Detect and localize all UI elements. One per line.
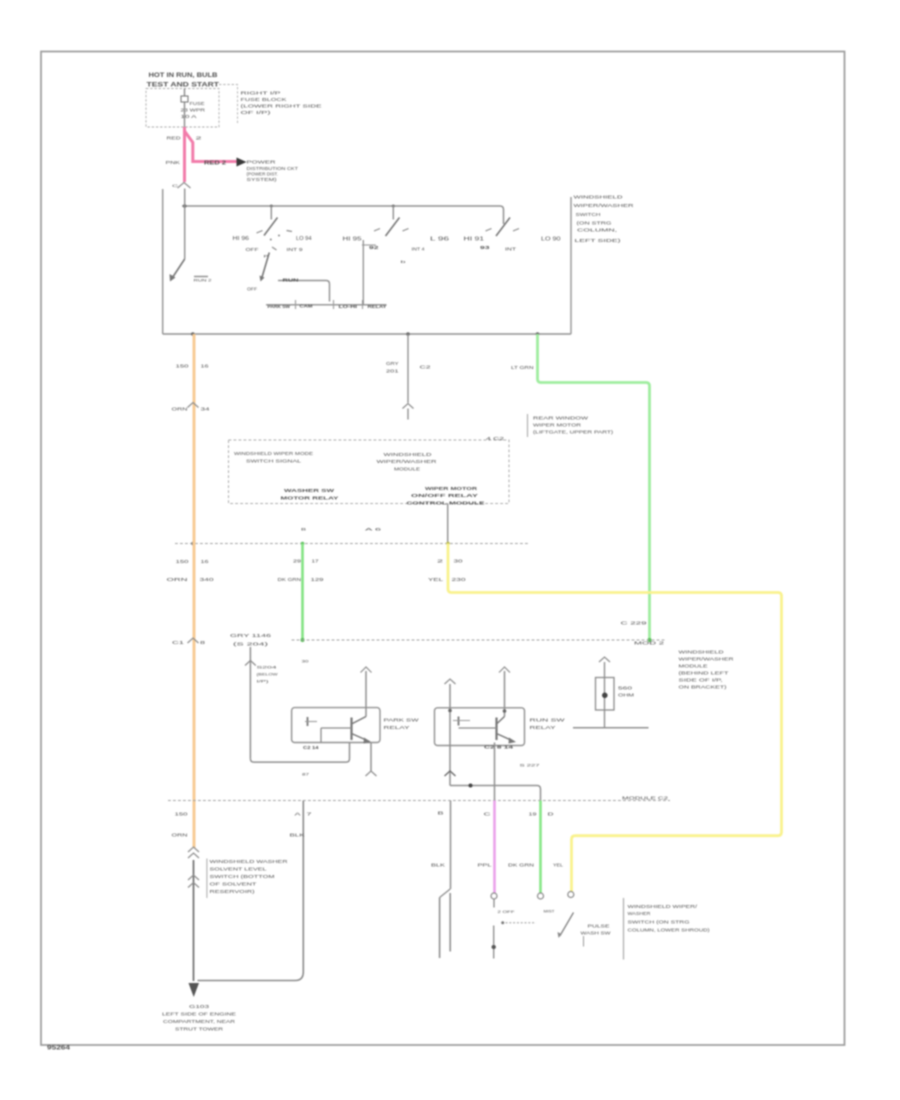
svg-text:GRY: GRY — [386, 361, 399, 366]
svg-text:WASHER: WASHER — [628, 911, 651, 916]
splice S227 label — [520, 763, 540, 768]
wire from S204 to relay K1 — [245, 647, 256, 759]
svg-text:4 C2: 4 C2 — [486, 436, 505, 441]
svg-text:RED: RED — [167, 136, 182, 141]
svg-text:DISTRIBUTION CKT: DISTRIBUTION CKT — [247, 166, 299, 171]
svg-text:OFF: OFF — [246, 247, 259, 252]
svg-text:WINDSHIELD WIPER MODE: WINDSHIELD WIPER MODE — [234, 451, 313, 456]
svg-text:(ON STRG: (ON STRG — [577, 221, 613, 226]
junction bus feed — [183, 204, 395, 208]
switch assembly box bottom edge — [163, 333, 571, 335]
resistor R1 — [596, 657, 635, 728]
svg-text:(S 204): (S 204) — [233, 642, 269, 647]
label LT GRN — [511, 365, 534, 370]
switch SW3 rotary — [464, 218, 561, 252]
park switch terminal row — [266, 300, 387, 309]
svg-text:LO 90: LO 90 — [541, 237, 561, 243]
net tag RED 2 on branch — [204, 161, 226, 167]
svg-text:DK GRN: DK GRN — [278, 577, 302, 582]
svg-text:2: 2 — [437, 559, 444, 564]
svg-text:7: 7 — [307, 812, 313, 817]
svg-text:230: 230 — [452, 577, 467, 582]
pin labels on dashed boundary — [301, 527, 383, 532]
hairpin connector below wire B — [440, 889, 451, 958]
svg-text:PULSE: PULSE — [588, 924, 610, 929]
switch assembly box right edge — [570, 197, 572, 334]
svg-text:RELAY: RELAY — [384, 725, 410, 730]
switch SW1b contact and wire to park row — [247, 278, 330, 302]
svg-text:RUN: RUN — [283, 278, 300, 283]
svg-text:(LIFTGATE, UPPER PART): (LIFTGATE, UPPER PART) — [533, 430, 614, 435]
svg-text:RED 2: RED 2 — [204, 161, 226, 167]
svg-text:560: 560 — [618, 686, 633, 691]
wire into fuse — [184, 89, 186, 96]
switch assembly label — [574, 195, 634, 244]
svg-text:S 227: S 227 — [520, 763, 540, 768]
svg-text:2: 2 — [196, 136, 203, 141]
svg-text:C1: C1 — [172, 640, 185, 645]
svg-text:C2 8 14: C2 8 14 — [484, 745, 514, 750]
svg-text:MIST: MIST — [544, 909, 556, 914]
svg-text:SWITCH (ON STRG: SWITCH (ON STRG — [628, 920, 691, 925]
relay K1 label — [384, 718, 420, 731]
svg-text:WINDSHIELD WASHER: WINDSHIELD WASHER — [210, 859, 288, 864]
svg-text:OF I/P): OF I/P) — [241, 110, 272, 116]
svg-text:BLK: BLK — [290, 833, 305, 838]
YEL label lower — [553, 863, 564, 868]
wiper switch blade lower — [558, 913, 574, 939]
svg-text:G103: G103 — [189, 1004, 210, 1009]
arrow to power distribution — [237, 158, 247, 167]
fuse block label text — [241, 91, 322, 117]
wire DK GRN short — [278, 544, 325, 643]
YEL wire labels — [428, 559, 467, 583]
wire ORN main vertical — [193, 334, 196, 848]
svg-text:b: b — [401, 260, 406, 264]
svg-text:TEST AND START: TEST AND START — [147, 82, 220, 89]
module boundary dashed line 2 — [292, 640, 666, 646]
svg-text:INT 9: INT 9 — [287, 247, 304, 252]
wire color label RED — [167, 136, 203, 141]
svg-text:S204: S204 — [257, 665, 279, 670]
ORN wire labels top — [172, 364, 211, 412]
svg-text:8: 8 — [200, 640, 206, 645]
svg-text:INT: INT — [505, 247, 516, 252]
switch assembly box left edge — [162, 189, 164, 334]
svg-text:LEFT SIDE OF ENGINE: LEFT SIDE OF ENGINE — [162, 1012, 236, 1017]
svg-text:RELAY: RELAY — [368, 304, 387, 309]
transistor Q1 in relay K1 — [305, 667, 377, 776]
svg-text:WIPER/WASHER: WIPER/WASHER — [679, 657, 734, 662]
module box text block 2 — [377, 452, 438, 472]
svg-text:MOTOR RELAY: MOTOR RELAY — [281, 496, 340, 502]
wire color label PNK — [166, 160, 182, 165]
relay K2 label — [530, 718, 567, 731]
svg-text:SWITCH: SWITCH — [576, 212, 601, 217]
svg-text:87: 87 — [302, 773, 309, 777]
ground bar under resistor — [573, 727, 649, 729]
svg-text:RUN 2: RUN 2 — [194, 279, 212, 283]
svg-text:16: 16 — [201, 559, 210, 564]
svg-text:93: 93 — [480, 245, 490, 250]
label MIST — [544, 909, 556, 914]
svg-text:30: 30 — [454, 559, 464, 564]
svg-text:FUSE: FUSE — [190, 101, 205, 106]
svg-text:SWITCH (BOTTOM: SWITCH (BOTTOM — [210, 874, 276, 879]
wire LT GRN long run — [538, 334, 650, 640]
wire PPL — [478, 801, 495, 894]
svg-text:10 A: 10 A — [181, 114, 197, 119]
wire feed A into relay K2 — [445, 679, 456, 786]
svg-text:30: 30 — [302, 660, 309, 664]
svg-text:WINDSHIELD: WINDSHIELD — [574, 195, 623, 200]
wire DK GRN lower — [508, 801, 554, 894]
switch terminals — [491, 892, 574, 900]
svg-text:GRY 1146: GRY 1146 — [230, 633, 272, 638]
node HOT IN RUN label — [147, 72, 220, 89]
svg-text:FUSE BLOCK: FUSE BLOCK — [241, 97, 288, 103]
svg-text:SWITCH SIGNAL: SWITCH SIGNAL — [246, 459, 302, 464]
module box text block 3 — [281, 488, 340, 502]
svg-text:HI 91: HI 91 — [464, 237, 485, 243]
svg-text:29: 29 — [293, 559, 302, 564]
svg-text:PNK: PNK — [166, 160, 182, 165]
junction green wire to module line — [648, 638, 652, 642]
switch contact SW1a — [194, 277, 212, 283]
svg-text:34: 34 — [201, 407, 211, 412]
bracket to fuse block label — [219, 85, 238, 124]
connector chevrons on BLK wire — [188, 875, 199, 888]
svg-text:REAR WINDOW: REAR WINDOW — [533, 416, 589, 421]
svg-text:201: 201 — [386, 369, 399, 374]
relay K1 box — [292, 708, 380, 743]
svg-text:ORN: ORN — [167, 577, 188, 582]
svg-text:19: 19 — [529, 812, 538, 817]
wiper washer switch label bottom right — [624, 898, 711, 960]
wire from box to wiper motor connector — [386, 334, 432, 403]
wire BLK to ground — [193, 860, 195, 981]
module box text block 1 — [234, 451, 313, 464]
connector chevron on ORN at 640 — [172, 638, 206, 645]
relay K1 designator — [303, 745, 319, 750]
junction dots on box bottom — [191, 332, 539, 336]
svg-text:WIPER/WASHER: WIPER/WASHER — [574, 203, 634, 208]
svg-text:LT GRN: LT GRN — [511, 365, 534, 370]
wire bottom bus of relays — [450, 784, 541, 801]
ground G103 label — [162, 1004, 236, 1032]
plate number label — [47, 1046, 71, 1052]
wire L-run into relay K1 emitter — [250, 743, 349, 762]
svg-text:A 6: A 6 — [365, 527, 383, 532]
svg-text:PARK SW: PARK SW — [268, 304, 291, 309]
wire B below boundary — [431, 801, 451, 890]
svg-text:ON/OFF RELAY: ON/OFF RELAY — [411, 493, 479, 499]
svg-text:92: 92 — [369, 245, 379, 250]
rear wiper motor label — [528, 414, 614, 437]
label PULSE WASH — [581, 924, 611, 947]
svg-text:OFF: OFF — [247, 287, 257, 292]
svg-text:WASHER SW: WASHER SW — [284, 488, 335, 494]
svg-text:LO-HI: LO-HI — [339, 304, 358, 309]
svg-text:WINDSHIELD: WINDSHIELD — [384, 452, 433, 457]
svg-text:B: B — [301, 527, 307, 532]
relay feed label text — [230, 633, 272, 647]
svg-text:DK GRN: DK GRN — [508, 863, 534, 868]
svg-text:MODULE C2: MODULE C2 — [622, 796, 669, 801]
svg-text:(BELOW: (BELOW — [257, 672, 278, 677]
svg-text:WINDSHIELD: WINDSHIELD — [679, 650, 724, 655]
svg-text:C: C — [172, 184, 179, 188]
svg-text:WIPER MOTOR: WIPER MOTOR — [533, 423, 581, 428]
svg-text:ORN: ORN — [172, 407, 188, 412]
svg-text:WIPER MOTOR: WIPER MOTOR — [425, 486, 478, 492]
svg-text:LO 94: LO 94 — [296, 236, 312, 242]
svg-text:(POWER DIST.: (POWER DIST. — [247, 172, 279, 177]
wire from relay K2 emitter down — [494, 743, 496, 801]
module boundary dashed line 1 — [175, 542, 529, 546]
wire PNK branch to POWER DISTRIBUTION — [185, 131, 243, 162]
svg-text:COLUMN, LOWER SHROUD): COLUMN, LOWER SHROUD) — [628, 928, 711, 933]
svg-text:ORN: ORN — [172, 833, 188, 838]
svg-text:RESERVOIR): RESERVOIR) — [210, 889, 256, 894]
svg-text:ON BRACKET): ON BRACKET) — [679, 685, 728, 690]
svg-text:STRUT TOWER: STRUT TOWER — [175, 1027, 223, 1032]
svg-text:PPL: PPL — [478, 863, 493, 868]
splice S204 label — [257, 665, 279, 684]
svg-text:CONTROL MODULE: CONTROL MODULE — [407, 501, 486, 507]
connector chevron on ORN at 405 — [188, 403, 199, 408]
svg-text:MOD 2: MOD 2 — [634, 641, 665, 646]
svg-text:17: 17 — [312, 559, 320, 564]
svg-text:MODULE: MODULE — [394, 467, 420, 472]
fuse value labels — [181, 101, 206, 119]
svg-text:WASH SW: WASH SW — [581, 931, 611, 936]
wiper module dashed box — [229, 440, 510, 504]
svg-text:YEL: YEL — [553, 863, 564, 868]
svg-text:WINDSHIELD WIPER/: WINDSHIELD WIPER/ — [628, 904, 699, 909]
svg-text:HI 96: HI 96 — [233, 236, 250, 242]
svg-text:SOLVENT LEVEL: SOLVENT LEVEL — [210, 867, 268, 872]
svg-text:RUN SW: RUN SW — [530, 718, 567, 723]
svg-text:BLK: BLK — [431, 863, 445, 868]
svg-text:340: 340 — [200, 577, 215, 582]
washer solvent switch label — [207, 859, 288, 899]
svg-text:OF SOLVENT: OF SOLVENT — [210, 882, 258, 887]
svg-text:OHM: OHM — [618, 693, 635, 698]
svg-text:MODULE: MODULE — [679, 664, 708, 669]
svg-text:C2: C2 — [420, 365, 432, 370]
svg-text:HI 95: HI 95 — [343, 237, 362, 243]
svg-text:150: 150 — [176, 364, 190, 369]
svg-text:LEFT SIDE): LEFT SIDE) — [575, 238, 622, 243]
fuse block dashed box — [146, 89, 219, 128]
ORN wire labels middle — [167, 559, 215, 582]
svg-text:C 229: C 229 — [621, 621, 648, 626]
svg-text:129: 129 — [311, 577, 325, 582]
label at green wire bottom — [621, 621, 648, 626]
svg-text:A: A — [295, 812, 301, 817]
fuse F23 symbol — [181, 96, 188, 102]
svg-text:C2 14: C2 14 — [303, 745, 319, 750]
wire PNK vertical — [183, 127, 186, 182]
svg-text:COMPARTMENT, NEAR: COMPARTMENT, NEAR — [163, 1019, 235, 1024]
connector C2 chevron at pink end — [172, 183, 191, 189]
svg-text:95264: 95264 — [47, 1046, 71, 1052]
ORN wire labels bottom — [172, 812, 189, 838]
wire YEL long run — [448, 544, 782, 894]
svg-text:16: 16 — [201, 364, 210, 369]
svg-text:2 OFF: 2 OFF — [498, 910, 516, 914]
svg-text:INT 4: INT 4 — [412, 247, 426, 252]
svg-text:POWER: POWER — [247, 160, 277, 165]
svg-text:PARK SW: PARK SW — [384, 718, 420, 723]
power distribution label — [247, 160, 299, 183]
pin label C2 above module box — [486, 436, 505, 441]
svg-text:COLUMN,: COLUMN, — [577, 228, 617, 233]
connector chevron on middle wire — [403, 404, 414, 420]
switch SW2 rotary — [343, 206, 450, 305]
module boundary dashed line 3 — [168, 796, 670, 801]
svg-text:L 96: L 96 — [430, 237, 449, 243]
svg-text:(LOWER RIGHT SIDE: (LOWER RIGHT SIDE — [241, 104, 322, 110]
splice S on orange end — [188, 847, 199, 858]
wiper module label right — [679, 650, 734, 690]
svg-text:(BEHIND LEFT: (BEHIND LEFT — [679, 671, 730, 676]
svg-text:C: C — [484, 812, 491, 817]
svg-text:WIPER/WASHER: WIPER/WASHER — [377, 459, 438, 464]
transistor Q2 in relay K2 — [453, 717, 516, 744]
switch SW1 rotary — [233, 206, 312, 252]
module box text block 4 — [407, 486, 486, 507]
svg-text:RELAY: RELAY — [530, 725, 556, 730]
svg-text:B: B — [438, 811, 444, 816]
svg-text:RIGHT I/P: RIGHT I/P — [241, 91, 281, 97]
pin numbers relay K1 — [302, 660, 310, 777]
svg-text:CAM: CAM — [300, 304, 313, 309]
wire BLK from module to ground — [198, 801, 313, 981]
washer switch contacts — [492, 899, 537, 959]
svg-text:SYSTEM): SYSTEM) — [247, 177, 278, 182]
switch blade SW1a — [170, 259, 185, 282]
svg-text:150: 150 — [175, 812, 189, 817]
svg-text:D: D — [548, 812, 554, 817]
wire feed B into relay K2 — [499, 667, 510, 717]
ground G103 arrow — [189, 983, 200, 997]
wire from module to yellow — [447, 504, 449, 544]
relay K2 designator — [484, 745, 514, 750]
svg-text:I/P): I/P) — [257, 679, 270, 684]
svg-text:YEL: YEL — [428, 577, 444, 582]
wire feed from connector to bus and switch SW1a — [184, 189, 186, 260]
svg-text:SIDE OF I/P,: SIDE OF I/P, — [679, 678, 723, 683]
wire below fuse — [184, 103, 186, 129]
wire bus from pink feed — [182, 206, 504, 224]
svg-text:150: 150 — [176, 559, 190, 564]
switch SW1b lower blade — [260, 253, 270, 282]
svg-text:HOT IN RUN, BULB: HOT IN RUN, BULB — [149, 72, 218, 79]
relay K2 box — [435, 708, 525, 746]
